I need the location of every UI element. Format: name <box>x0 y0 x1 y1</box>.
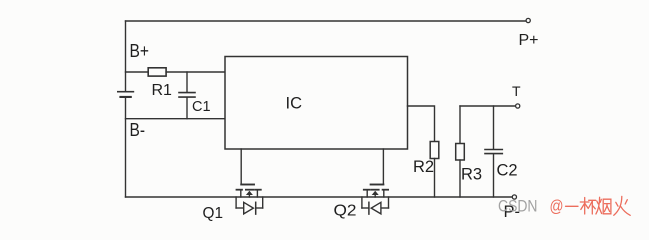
terminal P+ <box>526 18 530 22</box>
svg-text:Q2: Q2 <box>334 203 357 220</box>
transistor Q2 <box>364 185 388 198</box>
terminal T <box>516 104 520 108</box>
watermark hanzi 一 <box>566 205 579 207</box>
wire B- rail to IC <box>126 118 226 120</box>
wire IC output to R2 <box>408 106 435 142</box>
watermark hanzi 火 <box>614 196 630 215</box>
wire R3 top lead <box>459 106 461 144</box>
wire IC to Q1 gate <box>240 149 242 184</box>
capacitor C2 <box>485 106 502 197</box>
resistor R1 <box>148 68 166 76</box>
svg-text:@: @ <box>550 197 564 216</box>
wire T net horizontal <box>460 105 516 107</box>
wire B+ rail to R1 <box>126 71 149 73</box>
svg-text:B+: B+ <box>130 41 150 61</box>
svg-text:R1: R1 <box>152 82 173 99</box>
watermark hanzi 杯 <box>580 198 595 215</box>
terminal P- <box>512 195 516 199</box>
wire top rail B+ to P+ <box>126 20 526 22</box>
body diode of Q1 <box>236 197 263 214</box>
svg-text:R3: R3 <box>461 166 482 184</box>
wire R3 to bottom rail <box>459 160 461 197</box>
svg-text:CSDN: CSDN <box>498 197 538 216</box>
capacitor C1 <box>179 72 195 119</box>
svg-text:T: T <box>512 83 521 99</box>
svg-text:R2: R2 <box>413 158 434 176</box>
svg-text:IC: IC <box>286 95 303 113</box>
body diode of Q2 <box>362 197 389 214</box>
watermark hanzi 烟 <box>596 197 611 214</box>
resistor R2 <box>430 142 439 159</box>
wire R2 to bottom rail <box>434 159 436 198</box>
svg-text:P+: P+ <box>519 32 539 49</box>
battery BT1 <box>117 91 134 98</box>
wire left rail upper <box>125 21 127 91</box>
wire left rail lower <box>125 98 127 197</box>
wire IC to Q2 gate <box>382 149 384 184</box>
svg-text:Q1: Q1 <box>203 205 224 222</box>
IC U1 <box>225 57 408 150</box>
svg-text:B-: B- <box>130 120 146 140</box>
transistor Q1 <box>237 185 261 198</box>
svg-text:C2: C2 <box>497 162 518 180</box>
resistor R3 <box>456 144 465 161</box>
svg-text:C1: C1 <box>192 99 211 115</box>
wire bottom rail <box>126 196 513 198</box>
wire R1 to IC <box>166 71 225 73</box>
